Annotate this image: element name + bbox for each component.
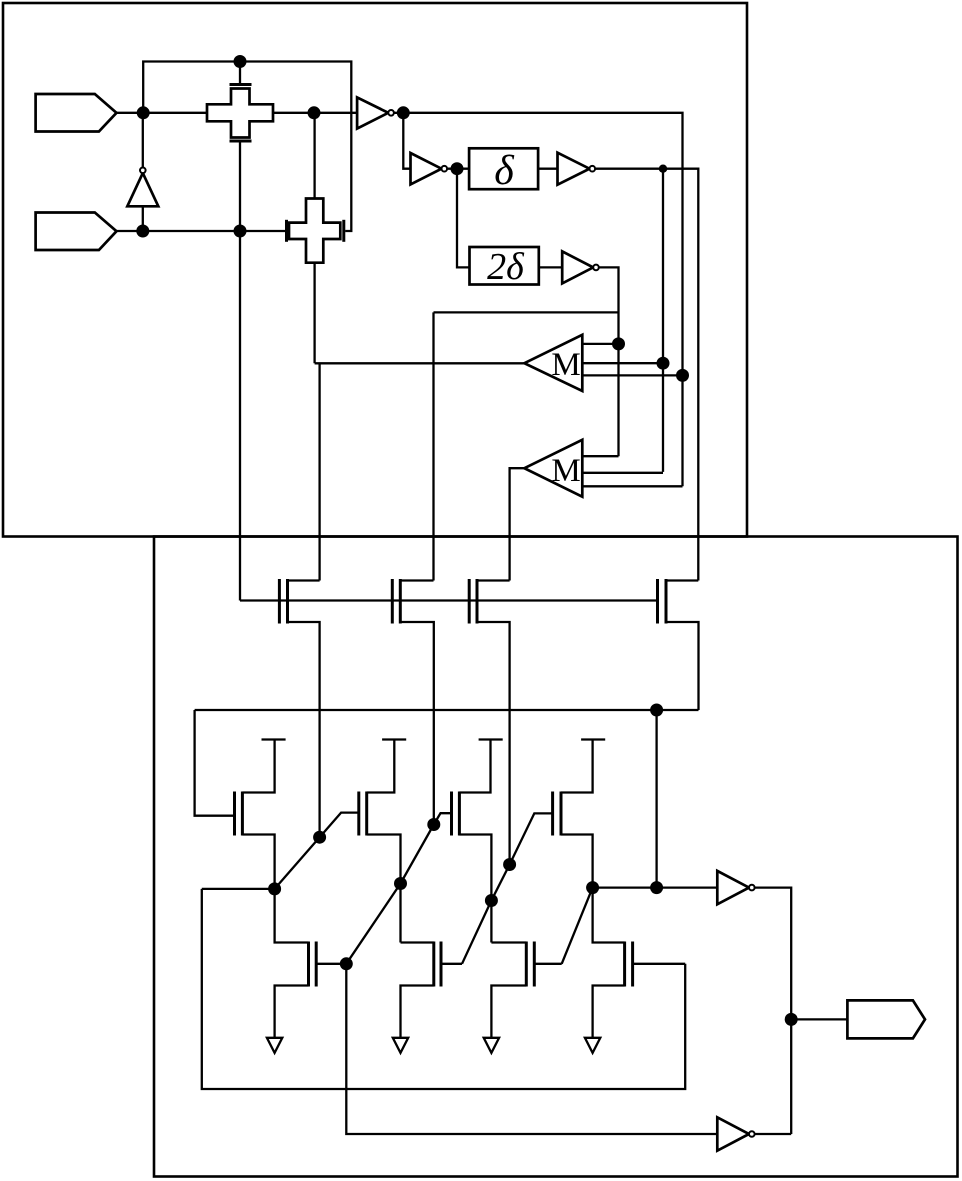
transistor T4 gate plate <box>656 579 659 624</box>
wire diagonal B2 gate to M4 gate <box>462 813 553 963</box>
node U2 output junction <box>451 162 464 175</box>
block 1 enclosure box <box>3 3 747 537</box>
wire delta box to buffer U3 <box>538 168 557 170</box>
node delta tap junction <box>659 165 667 173</box>
wire M3 drain down to B3 <box>459 835 491 943</box>
wire TG2 bottom down to M1 output node <box>313 263 315 364</box>
node T3 drain on diag3 <box>503 858 516 871</box>
wire M4 source to VDD cap <box>561 740 593 793</box>
wire B3 source to ground <box>491 986 526 1038</box>
VDD cap 2 <box>382 738 406 740</box>
transistor B1 channel <box>307 942 310 987</box>
wire diagonal B3 gate to node4 <box>562 888 593 964</box>
transmission gate TG2 left gate plate <box>285 220 288 242</box>
ground 3 <box>484 1038 499 1053</box>
node B1 gate junction <box>340 957 353 970</box>
wire M3 source to VDD cap <box>459 740 490 793</box>
wire B2 gate line <box>441 963 462 965</box>
inverter U6 bubble <box>749 1131 755 1137</box>
wire B2 drain lead <box>401 941 434 943</box>
wire node to 2delta box <box>457 169 470 268</box>
wire B3 drain lead <box>491 941 526 943</box>
input connector IN1 <box>36 94 117 132</box>
wire B4 drain up to node <box>593 888 625 943</box>
ground 1 <box>267 1038 282 1053</box>
wire M2 input2 <box>582 472 663 474</box>
transmission gate TG2 right gate plate <box>342 220 345 242</box>
wire U6 output <box>755 1133 792 1135</box>
transistor M2 channel <box>365 792 368 836</box>
transistor B3 channel <box>525 942 528 987</box>
inverter U2 bubble <box>442 166 448 172</box>
block 2 enclosure box <box>154 537 958 1177</box>
wire U1 output down to inverter U2 <box>403 113 410 169</box>
transistor M4 channel <box>560 792 563 836</box>
svg-text:δ: δ <box>494 148 515 194</box>
transistor M1 gate plate <box>233 792 236 836</box>
output connector OUT <box>847 1000 925 1038</box>
wire node input1 to inverter U0 bubble <box>142 113 144 168</box>
wire T1 source lead <box>288 579 320 581</box>
node bus tap junction <box>650 704 663 717</box>
VDD cap 1 <box>262 738 286 740</box>
wire B4 gate line to bracket <box>633 963 686 965</box>
wire output node to connector <box>791 1018 847 1020</box>
wire M1 input3 <box>582 374 682 376</box>
node stage4 drain junction <box>586 881 599 894</box>
wire M2 input1 <box>582 455 618 457</box>
inverter U4 <box>562 251 593 283</box>
node input2 / TG1 gate junction <box>234 225 247 238</box>
inverter U1 bubble <box>388 110 394 116</box>
node stage1 drain junction <box>268 882 281 895</box>
wire TG2 top stub to node <box>313 113 315 199</box>
wire TG1 bottom gate down to PMOS gate rail <box>239 142 241 601</box>
wire left node segment <box>202 888 275 890</box>
transistor M4 gate plate <box>551 792 554 836</box>
node diag3 stage3 junction <box>485 894 498 907</box>
VDD cap 4 <box>581 738 605 740</box>
transistor T3 channel <box>476 579 479 624</box>
wire T4 source lead <box>666 579 698 581</box>
wire M2 drain down to B2 <box>367 835 401 943</box>
wire TG1 top gate stub <box>239 62 241 85</box>
inverter U0 bubble <box>140 168 146 174</box>
wire down to T2 source <box>432 312 434 580</box>
wire M1 input2 <box>582 362 663 364</box>
wire M2 output down to T3 source <box>510 468 525 580</box>
transistor T4 channel <box>665 579 668 624</box>
VDD cap 3 <box>479 738 503 740</box>
wire T2 drain lead down to diag2 <box>400 622 434 825</box>
wire U2 output to delta box <box>447 168 469 170</box>
wire T3 drain lead down to diag3 <box>477 622 510 865</box>
transistor B1 gate plate <box>315 942 318 987</box>
wire bus down to M1 gate <box>195 710 235 816</box>
wire B1 gate line <box>316 963 346 965</box>
transistor M2 gate plate <box>357 792 360 836</box>
node T1 drain on diag1 <box>313 831 326 844</box>
inverter U0 between inputs <box>127 173 158 206</box>
wire T1 drain lead down to diag1 <box>288 622 320 837</box>
wire 2delta branch left <box>434 311 619 313</box>
wire bus tap down to output node <box>655 710 657 888</box>
wire B2 source to ground <box>401 986 434 1038</box>
mutex element M2 <box>524 440 582 497</box>
wire T2 source lead <box>400 579 433 581</box>
node input2 junction <box>136 225 149 238</box>
transistor T1 channel <box>286 579 289 624</box>
wire horizontal bus y710 <box>195 709 699 711</box>
inverter U5 <box>717 871 749 904</box>
node TG1 out / TG2 junction <box>308 106 321 119</box>
wire U4 output down to M1/M2 first input <box>599 267 619 456</box>
wire delta tap down to M1/M2 second input <box>662 169 664 472</box>
wire U1 output across top and down to M2 input3 <box>394 113 683 487</box>
ground 2 <box>393 1038 408 1053</box>
node diag2 stage2 junction <box>394 877 407 890</box>
wire inverter U0 to input2 net <box>142 206 144 231</box>
wire B3 gate line <box>534 963 561 965</box>
transistor B4 gate plate <box>631 942 634 987</box>
node T2 drain on diag2 <box>427 818 440 831</box>
node M1 input1 junction <box>612 337 625 350</box>
wire B4 source to ground <box>593 986 625 1038</box>
inverter U3 bubble <box>590 166 596 172</box>
transmission gate TG1 body <box>207 89 273 138</box>
inverter U1 <box>357 97 388 128</box>
ground 4 <box>585 1038 600 1053</box>
wire M2 input3 <box>582 485 682 487</box>
node input1 junction <box>137 106 150 119</box>
transistor T2 channel <box>399 579 402 624</box>
inverter U3 <box>558 153 590 185</box>
wire M1 input1 <box>582 343 618 345</box>
wire B1 source to ground <box>275 986 309 1038</box>
transistor B2 channel <box>432 942 435 987</box>
transistor B2 gate plate <box>440 942 443 987</box>
svg-text:2δ: 2δ <box>487 246 525 288</box>
transistor M3 channel <box>458 792 461 836</box>
wire diagonal B1 gate node to M3 gate <box>346 813 451 964</box>
transistor T3 gate plate <box>468 579 471 624</box>
node M1 input3 junction <box>676 369 689 382</box>
transistor M3 gate plate <box>450 792 453 836</box>
wire node4 to inverter U5 <box>593 886 718 888</box>
node TG1 top gate junction <box>234 55 247 68</box>
wire M1 drain down to node <box>242 835 274 889</box>
wire diagonal node1 to M2 gate <box>275 813 359 889</box>
transistor M1 channel <box>241 792 244 836</box>
wire feedback bracket <box>202 889 685 1089</box>
transistor T2 gate plate <box>391 579 394 624</box>
wire B1 drain up to node <box>275 889 309 943</box>
wire input2 to TG2 left gate <box>117 230 286 232</box>
svg-text:M: M <box>551 453 580 489</box>
wire shared PMOS gate rail <box>240 599 658 601</box>
inverter U2 <box>411 153 442 184</box>
node output junction <box>785 1013 798 1026</box>
wire M1 output node down to T1 source <box>318 363 320 580</box>
inverter U4 bubble <box>593 265 599 271</box>
transistor B3 gate plate <box>533 942 536 987</box>
wire U5 output down <box>755 888 792 1134</box>
mutex element M1 <box>524 335 582 391</box>
transistor B4 channel <box>623 942 626 987</box>
wire M1 output <box>315 362 525 364</box>
wire T3 source lead <box>477 579 510 581</box>
svg-text:M: M <box>551 347 580 383</box>
node U1 output junction <box>397 106 410 119</box>
wire M1 source to VDD cap <box>242 740 274 793</box>
wire input1 to TG1 <box>117 112 208 114</box>
inverter U6 <box>717 1117 749 1150</box>
input connector IN2 <box>36 213 117 251</box>
wire B1 gate node down to inverter U6 <box>346 964 717 1134</box>
wire U3 output right and down to T4 source <box>595 169 698 581</box>
node inverter feed junction <box>650 881 663 894</box>
transmission gate TG1 top gate plate <box>230 83 252 86</box>
delay box delta <box>469 148 538 189</box>
wire 2delta box to buffer U4 <box>539 266 562 268</box>
transmission gate TG1 bottom gate plate <box>230 140 252 143</box>
wire M4 drain down to node <box>561 835 593 888</box>
wire M2 source to VDD cap <box>367 740 395 793</box>
node M1 input2 junction <box>657 357 670 370</box>
inverter U5 bubble <box>749 885 755 891</box>
delay box 2delta <box>470 247 539 285</box>
transmission gate TG2 body <box>289 199 340 263</box>
wire input1 up over TG1 to TG2 right gate <box>143 62 351 232</box>
wire TG1 output to inverter U1 <box>273 112 357 114</box>
transistor T1 gate plate <box>278 579 281 624</box>
wire T4 drain lead down to bus <box>666 622 699 710</box>
